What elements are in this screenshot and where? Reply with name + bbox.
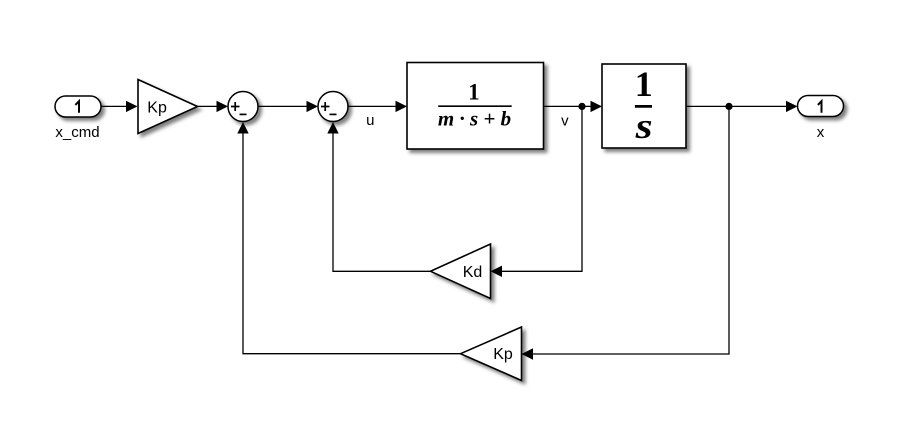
output port Out1	[798, 96, 844, 117]
svg-text:u: u	[366, 112, 374, 129]
wire Kd to sum2 (up)	[333, 134, 431, 272]
arrowhead into transfer fcn	[396, 101, 408, 112]
svg-text:v: v	[561, 113, 569, 130]
sum block 2	[318, 92, 348, 122]
svg-text:1: 1	[635, 64, 653, 104]
svg-text:Kd: Kd	[463, 264, 483, 281]
wire junction v down to Kd	[502, 106, 582, 271]
arrowhead into Kp feedback	[522, 348, 534, 359]
gain Kp (forward)	[138, 80, 198, 134]
junction node v	[578, 103, 585, 110]
wire junction x down to Kp feedback	[533, 106, 729, 354]
svg-text:s: s	[634, 106, 652, 146]
wire input to Kp gain	[101, 105, 127, 107]
integrator block 1/s	[602, 64, 686, 148]
wire sum1 to sum2	[258, 105, 307, 107]
arrowhead into sum2 bottom	[327, 122, 338, 134]
wire Kp feedback to sum1 (up)	[243, 134, 461, 354]
wire Kp gain to sum1	[198, 105, 218, 107]
transfer function block 1/(m*s+b)	[407, 63, 544, 150]
arrowhead into output port	[786, 101, 798, 112]
wire sum2 to transfer fcn	[348, 105, 396, 107]
svg-text:1: 1	[468, 80, 480, 105]
wire transfer fcn to integrator	[544, 105, 592, 107]
svg-text:Kp: Kp	[147, 100, 167, 117]
sum block 1	[228, 92, 258, 122]
arrowhead into sum1 bottom	[237, 122, 248, 134]
gain Kp (position feedback)	[461, 327, 522, 381]
gain Kd (derivative feedback)	[431, 244, 491, 299]
junction node x	[725, 103, 732, 110]
input port In1	[55, 96, 101, 117]
arrowhead into sum1	[217, 101, 229, 112]
arrowhead into Kd	[491, 266, 503, 277]
svg-text:x_cmd: x_cmd	[55, 124, 99, 141]
arrowhead into sum2	[307, 101, 319, 112]
arrowhead into Kp gain	[126, 101, 138, 112]
svg-text:Kp: Kp	[493, 346, 513, 363]
wire integrator to output port	[686, 105, 786, 107]
arrowhead into integrator	[591, 101, 603, 112]
svg-text:x: x	[817, 124, 825, 141]
svg-text:m · s + b: m · s + b	[438, 106, 511, 130]
